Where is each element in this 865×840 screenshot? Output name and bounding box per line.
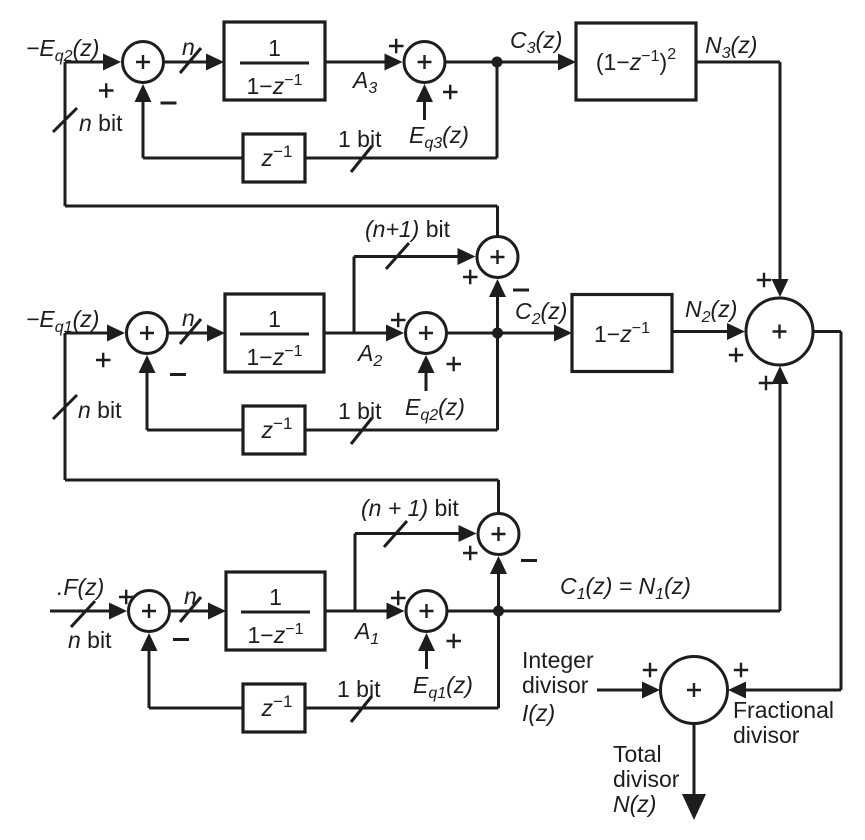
wire fractional divisor vertical down [840,332,843,691]
slash n-bit bus mark on left rail stage3 [53,108,77,132]
arrowhead total divisor output [682,794,706,820]
minus sign at T2 bottom input [513,289,529,292]
wire feedback node C3 down [496,62,499,158]
plus sign at S1b bottom input [447,634,462,648]
wire S1b to node C1 [447,610,499,613]
wire feedback horizontal left of z-1 (stage 3) [143,157,243,160]
svg-text:1: 1 [268,35,281,61]
wire N3 vertical down to big summer [779,62,782,281]
arrowhead Eq3 into S3b [416,84,433,102]
wire S2b to node C2 [447,332,498,335]
wire (n + 1) bit horizontal into upper summer T1 [355,532,459,535]
wire feedback horizontal right of z-1 (stage 2) [305,429,498,432]
block U2 accumulator 1/(1-z^-1) [225,294,324,372]
wire input into summer S3a [65,61,105,64]
wire branch vertical A1 up to (n+1)bit line [354,534,357,612]
label Total divisor N(z) [613,741,680,817]
wire S1a to accumulator box [170,610,210,613]
label Integer divisor I(z) [522,647,594,726]
arrowhead into summer S3b [385,54,403,71]
plus sign at S3b bottom input [443,85,458,99]
svg-text:1 bit: 1 bit [337,676,381,702]
svg-text:N(z): N(z) [613,791,656,817]
svg-text:divisor: divisor [733,722,800,748]
minus sign at S2a feedback input [170,373,186,376]
wire Eq3 input arrow [423,100,426,120]
plus sign at S2a left input [96,353,111,367]
svg-text:Eq1(z): Eq1(z) [413,672,473,702]
arrowhead into differentiator 1-z^-1 [554,325,572,342]
minus sign at S1a feedback input [173,638,189,641]
label Fractional divisor [733,697,834,748]
node C2 junction dot [492,328,503,339]
slash 1-bit mark stage2 feedback [351,418,372,444]
plus sign at S3b left input [389,39,404,53]
svg-text:N2(z): N2(z) [685,296,737,326]
arrowhead N3 into big summer top [772,279,789,297]
slash n-bit bus mark on left rail stage2 [53,395,77,419]
plus sign at S2b left input [391,313,406,327]
plus sign at S1b left input [391,591,406,605]
wire feedback node C1 down [497,611,500,708]
svg-text:Eq2(z): Eq2(z) [405,394,465,424]
slash 1-bit mark stage3 feedback [351,146,372,172]
arrowhead C1 into T1 bottom [490,556,507,574]
minus sign at S3a feedback input [161,102,177,105]
wire node C3 to differentiator box [497,61,559,64]
plus inside summer S1a [142,604,156,618]
slash n bus mark after S1a [180,597,201,622]
plus sign at big summer left input [729,348,743,362]
arrowhead fractional into divisor summer right [728,682,746,699]
wire U1 to summer S1b [325,610,387,613]
svg-text:(n+1) bit: (n+1) bit [365,216,451,242]
wire N2 into big summer [672,330,728,333]
svg-text:Integer: Integer [522,647,594,673]
arrowhead into upper summer T1 [459,525,477,542]
wire node C2 to differentiator box [498,332,557,335]
block U1 accumulator 1/(1-z^-1) [226,572,325,650]
wire rail B vertical into upper summer T1 [497,480,500,513]
wire U2 to summer S2b [324,332,387,335]
slash (n+1)-bit bus mark stage1 [384,521,407,547]
svg-text:N3(z): N3(z) [705,32,757,62]
arrowhead into summer S2b [386,325,404,342]
plus sign at T2 left input [463,270,478,284]
wire (n+1) bit horizontal into upper summer T2 [354,255,458,258]
summer S1b [406,591,447,632]
svg-text:1: 1 [269,584,282,610]
summer S1a [129,591,170,632]
plus inside upper summer T2 [491,250,505,264]
arrowhead feedback into S3a bottom [135,84,152,102]
svg-text:(n + 1) bit: (n + 1) bit [361,495,459,521]
upper summer T1 [478,514,519,555]
arrowhead feedback into S1a bottom [141,633,158,651]
svg-text:1 bit: 1 bit [338,126,382,152]
arrowhead into summer S1b [387,603,405,620]
arrowhead feedback into S2a bottom [139,355,156,373]
plus sign at T1 left input [463,546,478,560]
wire node C2 up to upper summer T2 [496,296,499,333]
arrowhead C2 into T2 bottom [489,279,506,297]
wire N3 output horizontal [696,61,780,64]
node C1 junction dot [493,606,504,617]
wire S2a to accumulator box [168,332,209,335]
plus inside summer S3a [136,55,150,69]
arrowhead into accumulator U2 [207,325,225,342]
arrowhead into upper summer T2 [458,248,476,265]
wire left rail stage3 vertical [64,62,67,206]
plus sign at big summer top input [757,273,771,287]
block z^-1 delay stage 1 [243,684,305,732]
block z^-1 delay stage 3 [243,134,305,182]
wire Eq1 input arrow [425,649,428,669]
wire feedback horizontal right of z-1 (stage 1) [305,707,499,710]
wire C1=N1 horizontal to right [499,610,781,613]
minus sign at T1 bottom input [521,559,537,562]
plus inside upper summer T1 [492,527,506,541]
plus inside summer S2b [419,326,433,340]
slash n-bit bus mark on input [71,601,95,627]
arrowhead integer into divisor summer left [642,682,660,699]
svg-text:C2(z): C2(z) [515,298,567,328]
arrowhead into summer S2a [107,325,125,342]
svg-text:1 bit: 1 bit [338,398,382,424]
svg-text:C1(z) = N1(z): C1(z) = N1(z) [560,573,691,603]
svg-text:n: n [184,583,197,609]
svg-text:divisor: divisor [522,672,589,698]
arrowhead N2 into big summer left [727,323,745,340]
wire Eq2 input arrow [425,371,428,391]
arrowhead into differentiator (1-z^-1)^2 [558,54,576,71]
svg-text:Fractional: Fractional [733,697,834,723]
node C3 junction dot [492,57,503,68]
svg-text:Total: Total [613,741,662,767]
wire rail A horizontal (stage2 upper summer output to stage3 input) [65,205,498,208]
plus sign at S3a left input [99,83,114,97]
svg-text:1: 1 [268,306,281,332]
upper summer T2 [477,237,518,278]
plus sign at divisor summer right input [734,663,748,677]
wire feedback horizontal right of z-1 (stage 3) [305,157,497,160]
wire input into summer S1a [50,610,110,613]
svg-text:n: n [182,305,195,331]
slash (n+1)-bit bus mark stage2 [386,243,409,269]
wire feedback vertical up into S3a [142,101,145,158]
wire node C1 up to upper summer T1 [497,574,500,611]
plus inside summer S2a [140,326,154,340]
wire total divisor output down [693,724,696,797]
arrowhead Eq1 into S1b [418,633,435,651]
wire fractional divisor horizontal into divisor summer [746,689,841,692]
plus sign at S1a left input [119,590,134,604]
wire S3a to accumulator box [164,61,209,64]
arrowhead into summer S3a [103,54,121,71]
summer S2b [406,313,447,354]
wire feedback vertical up into S1a [148,650,151,708]
wire feedback horizontal left of z-1 (stage 2) [147,429,243,432]
plus sign at S2b bottom input [447,357,462,371]
wire integer divisor into summer [597,689,643,692]
block U3 accumulator 1/(1-z^-1) [224,22,325,100]
wire S3b to node C3 [445,61,497,64]
wire branch vertical A2 up to (n+1)bit line [353,257,356,334]
arrowhead into accumulator U3 [206,54,224,71]
block 1-z^-1 [572,295,672,372]
arrowhead N1 into big summer bottom [772,366,789,384]
plus sign at big summer bottom input [759,376,773,390]
wire feedback horizontal left of z-1 (stage 1) [149,707,243,710]
svg-text:Eq3(z): Eq3(z) [409,122,469,152]
wire rail A vertical into upper summer T2 [496,206,499,236]
svg-text:A1: A1 [353,618,379,648]
wire input into summer S2a [65,332,108,335]
arrowhead into summer S1a [109,603,127,620]
arrowhead Eq2 into S2b [418,355,435,373]
svg-text:n bit: n bit [79,110,123,136]
wire left rail stage2 vertical [64,333,67,480]
summer S2a [127,313,168,354]
summer S3b [404,42,445,83]
wire feedback vertical up into S2a [146,372,149,430]
slash n bus mark after S3a [180,48,201,73]
wire big summer output right [813,330,841,333]
plus inside summer S1b [420,604,434,618]
plus inside divisor summer SD [687,683,701,697]
big summer SG (combines N1,N2,N3) [746,298,813,365]
slash n bus mark after S2a [180,319,201,344]
slash 1-bit mark stage1 feedback [351,696,372,722]
plus inside summer S3b [418,55,432,69]
summer S3a [123,42,164,83]
svg-text:divisor: divisor [613,766,680,792]
plus sign at divisor summer left input [643,663,657,677]
svg-text:n bit: n bit [78,397,122,423]
wire rail B horizontal (stage1 upper summer output to stage2 input) [65,479,499,482]
svg-text:(1−z−1)2: (1−z−1)2 [596,46,676,75]
block z^-1 delay stage 2 [243,406,305,454]
svg-text:A3: A3 [351,67,377,97]
plus inside big summer SG [773,325,787,339]
wire U3 to summer S3b [325,61,386,64]
block (1-z^-1)^2 [576,23,696,100]
svg-text:n: n [182,34,195,60]
svg-text:n bit: n bit [68,627,112,653]
arrowhead into accumulator U1 [208,603,226,620]
wire feedback node C2 down [496,333,499,430]
svg-text:.F(z): .F(z) [57,574,104,600]
wire N1 vertical up to big summer [779,383,782,611]
svg-text:C3(z): C3(z) [510,27,562,57]
svg-text:I(z): I(z) [522,700,555,726]
divisor summer SD [661,657,728,724]
svg-text:A2: A2 [356,340,382,370]
